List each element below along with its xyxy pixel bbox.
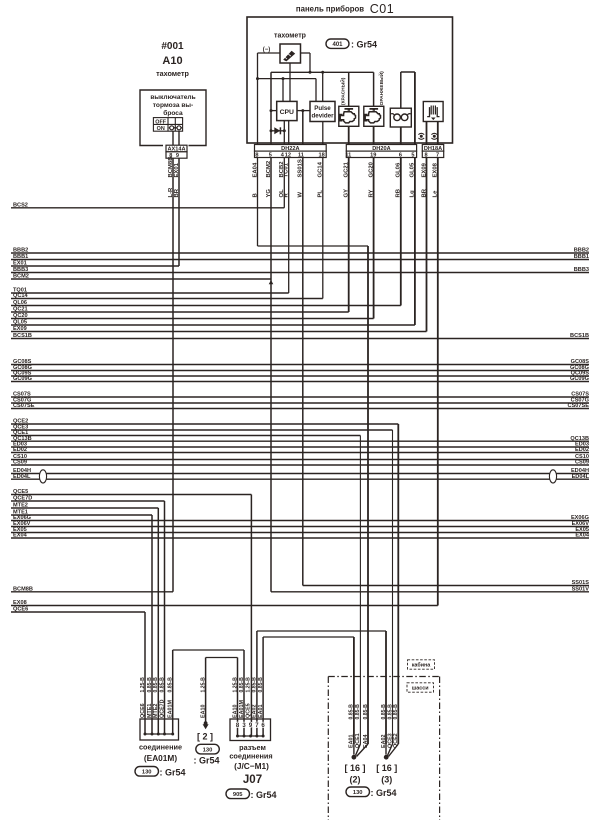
junction bus2 gauge [256, 77, 259, 80]
wire joint J07 bus [238, 735, 264, 737]
svg-text:C01: C01 [370, 2, 394, 16]
svg-text:тахометр: тахометр [156, 69, 189, 78]
label шасси [407, 683, 434, 692]
svg-text:1.25-B: 1.25-B [245, 677, 251, 693]
svg-text:GC20: GC20 [368, 161, 374, 177]
wire QCE1 vertical to joint 16-2 [359, 436, 361, 745]
wire QCE6 vertical to joint EA01M [144, 612, 146, 734]
svg-text:A10: A10 [162, 55, 182, 67]
wire net ED02 [11, 452, 589, 454]
svg-text:11: 11 [298, 152, 304, 158]
wire joint EA01M bus [145, 733, 173, 735]
svg-text:EA04: EA04 [363, 735, 369, 749]
arrow junction BCM2 [269, 280, 274, 284]
svg-text:QC14: QC14 [13, 293, 29, 299]
wire CPU left [271, 110, 277, 112]
svg-text:devider: devider [311, 113, 334, 120]
wire net BBB1 [11, 259, 589, 261]
wire BCM8B vertical from AX14A pin8 [172, 156, 174, 592]
wire net EX09 [11, 331, 427, 333]
wire SS01S vertical DH22A pin11 [302, 111, 304, 586]
svg-text:130: 130 [142, 770, 152, 776]
switch contact bridge [169, 127, 182, 129]
wire EA01 vertical to joint 16-2 [353, 637, 355, 744]
wire BCM2/SS01V vertical DH22A pin5 [270, 72, 272, 592]
wire net BCS1B [11, 338, 589, 340]
wire gauge left down [257, 53, 259, 79]
svg-text:401: 401 [332, 42, 343, 48]
svg-text:18: 18 [318, 152, 324, 158]
wire net QCE5 [11, 494, 251, 496]
wire coil jumper top [401, 71, 415, 73]
svg-text:J07: J07 [243, 774, 262, 786]
svg-text:(2): (2) [350, 775, 361, 785]
icon check engine red [345, 108, 354, 111]
wire gauge right [301, 52, 311, 54]
junction EA01M [171, 733, 174, 736]
svg-text:GY: GY [344, 189, 350, 198]
svg-text:CS07SE: CS07SE [13, 403, 35, 409]
wire GC20 vertical DH20A pin19 to QC20 [373, 126, 375, 318]
svg-text:130: 130 [353, 790, 363, 796]
svg-text:BBB1: BBB1 [13, 254, 28, 260]
wire bus2 to CPU top [282, 79, 284, 102]
wire bus1 [271, 71, 374, 73]
junction J07 [249, 735, 252, 738]
wire net SS01V [271, 591, 589, 593]
wire MTE2 vertical to joint EA01M [157, 508, 159, 734]
exhaust brake switch box [140, 90, 206, 146]
svg-text:EA02: EA02 [381, 735, 387, 749]
svg-text:0.85-B: 0.85-B [355, 704, 361, 720]
cab chassis boundary horizontal [328, 676, 439, 678]
svg-text:броса: броса [163, 109, 183, 117]
wire net QL05 [11, 324, 415, 326]
wire EA02 vertical to J07 pin7 [256, 631, 258, 736]
svg-text:BR: BR [174, 188, 180, 197]
wire net BCS2 [11, 207, 284, 209]
wire net QL06 [11, 305, 401, 307]
label кабина [408, 660, 435, 669]
svg-text:MTE1: MTE1 [147, 704, 153, 718]
wire QCE7D vertical to joint EA01M [164, 501, 166, 734]
wire net EX04 [11, 537, 589, 539]
svg-text:8: 8 [255, 152, 258, 158]
svg-text:EX08: EX08 [433, 162, 439, 177]
instrument panel box C01 [247, 17, 453, 143]
wire net ED04L [11, 478, 589, 480]
svg-text:[ 16 ]: [ 16 ] [344, 763, 365, 773]
icon coil loops [394, 114, 401, 121]
svg-text:[ 16 ]: [ 16 ] [376, 763, 397, 773]
wire EA10 vertical to destination 2 arrow [205, 658, 207, 724]
oval 401 Gr54 [326, 39, 349, 48]
svg-text:(J/C−M1): (J/C−M1) [234, 761, 269, 771]
wire net BCM8B [11, 591, 173, 593]
svg-text:EA01: EA01 [258, 705, 264, 719]
svg-text:EX01: EX01 [174, 162, 180, 177]
svg-text:0.85-B: 0.85-B [239, 677, 245, 693]
icon exhaust brake [427, 107, 439, 117]
svg-text:панель приборов: панель приборов [296, 5, 364, 14]
icon check engine orange [370, 108, 379, 111]
svg-text:0.85-B: 0.85-B [147, 677, 153, 693]
wire net QCE1 [11, 435, 360, 437]
wire net CS10 [11, 459, 589, 461]
wire net QC09S [11, 375, 589, 377]
wire net ED03 [11, 446, 589, 448]
wire net QCE7D [11, 500, 165, 502]
svg-text:RY: RY [368, 189, 374, 197]
wire net CS07SE [11, 408, 589, 410]
wire TC01 vertical CPU to DH22A pin12 to TQ01 [288, 121, 290, 293]
wire QCE2 vertical to joint 16-3 [397, 424, 399, 744]
glow plug coil box [390, 108, 411, 127]
wire EA01 horizontal link y637 [263, 636, 354, 638]
junction diode left [270, 129, 273, 132]
svg-text:: Gr54: : Gr54 [251, 790, 277, 800]
wire net GC09G [11, 381, 589, 383]
svg-text:тормоза вы-: тормоза вы- [153, 102, 193, 109]
svg-text:QCE2: QCE2 [393, 733, 399, 748]
wire BCB2 vertical CPU to DH22A pin4 to BCS2 [283, 121, 285, 208]
wire net QCE2 [11, 423, 398, 425]
svg-text:GL06: GL06 [396, 162, 402, 177]
svg-text:EX04: EX04 [13, 533, 28, 539]
joint connector EA01M [140, 719, 179, 740]
wire net TQ01 [11, 292, 289, 294]
svg-text:RB: RB [396, 189, 402, 198]
wire EX01 vertical from AX14A pin9 [178, 156, 180, 266]
svg-text:6: 6 [399, 152, 402, 158]
svg-text:BCS2: BCS2 [13, 203, 28, 209]
wire EA10 horizontal link y657 [206, 657, 238, 659]
wire QCE5 vertical to J07 pin9 [250, 495, 252, 737]
svg-text:CS09: CS09 [575, 460, 589, 466]
svg-text:BCM2: BCM2 [13, 274, 29, 280]
wire net QCE3 [11, 429, 393, 431]
svg-text:YG: YG [266, 189, 272, 198]
svg-text:QL05: QL05 [13, 320, 27, 326]
oval 130 destination 2 [196, 744, 220, 754]
wire GL06 vertical coil to DH20A pin6 to QL06 [400, 127, 402, 306]
wire net MTE1 [11, 514, 152, 516]
svg-text:EX09: EX09 [421, 162, 427, 177]
svg-text:0.85-B: 0.85-B [363, 704, 369, 720]
svg-text:(−): (−) [263, 47, 271, 53]
gauge needle icon [283, 51, 295, 62]
svg-text:шасси: шасси [412, 686, 429, 692]
switch contact 2 [177, 126, 181, 130]
wire GC14 vertical pulse divider to DH22A pin18 to QC14 [322, 122, 324, 299]
svg-text:GC09G: GC09G [13, 376, 32, 382]
connector DH22A [255, 145, 327, 152]
wire gauge left [258, 52, 281, 54]
junction SS01S tap [301, 109, 304, 112]
svg-text:ON: ON [157, 126, 165, 132]
svg-text:: Gr54: : Gr54 [194, 756, 220, 766]
junction bus2 cpu [282, 77, 285, 80]
wire coil top up [400, 72, 402, 108]
wire net CS07G [11, 402, 589, 404]
svg-text:MTE2: MTE2 [13, 503, 28, 509]
wire MTE1 vertical to joint EA01M [151, 515, 153, 734]
svg-text:[ 2 ]: [ 2 ] [197, 732, 213, 742]
arrow destination 2 [204, 721, 208, 725]
svg-text:TC01: TC01 [284, 162, 290, 177]
cab chassis boundary vertical left [327, 677, 329, 820]
svg-text:EA01: EA01 [349, 735, 355, 749]
connector DH20A [346, 145, 416, 152]
twisted pair marker right [549, 470, 556, 483]
svg-text:1.25-B: 1.25-B [200, 677, 206, 693]
wire net EX08 [11, 605, 438, 607]
wire net EX01 [11, 265, 179, 267]
svg-text:12: 12 [285, 152, 291, 158]
svg-text:8: 8 [424, 152, 427, 158]
svg-text:QCE5: QCE5 [13, 489, 28, 495]
wire EX08 vertical DH18A pin7 to EX08 line [437, 121, 439, 605]
svg-text:5: 5 [269, 152, 272, 158]
svg-text:BR: BR [421, 188, 427, 197]
svg-text:ED04L: ED04L [13, 474, 31, 480]
exhaust brake indicator box [423, 102, 443, 122]
svg-text:QCE7D: QCE7D [159, 699, 165, 718]
svg-text:#001: #001 [161, 41, 184, 52]
svg-text:130: 130 [203, 747, 213, 753]
svg-text:905: 905 [233, 792, 243, 798]
junction J07 [236, 735, 239, 738]
svg-text:QC20: QC20 [13, 313, 28, 319]
wire EA04 vertical from DH22A pin8 [257, 79, 259, 246]
switch contact 1 [170, 126, 174, 130]
lamp red check-engine box [339, 106, 359, 126]
svg-text:0.85-B: 0.85-B [159, 677, 165, 693]
svg-text:BCS1B: BCS1B [570, 333, 589, 339]
svg-text:: Gr54: : Gr54 [371, 788, 397, 798]
svg-text:SS01V: SS01V [572, 587, 590, 593]
wire net EX05 [11, 532, 589, 534]
wire EA01M horizontal link y650 [173, 649, 244, 651]
svg-text:5: 5 [411, 152, 414, 158]
twisted pair marker left [39, 470, 46, 483]
wire net BBB2 [11, 252, 589, 254]
svg-text:7: 7 [436, 152, 439, 158]
wire gauge right down [309, 53, 311, 72]
wire net CS07S [11, 396, 589, 398]
svg-text:EA04: EA04 [252, 162, 258, 177]
svg-text:R: R [284, 193, 290, 198]
svg-text:тахометр: тахометр [274, 33, 306, 40]
svg-text:(3): (3) [381, 775, 392, 785]
junction EA01M [144, 733, 147, 736]
svg-text:EX01: EX01 [13, 261, 27, 267]
svg-text:19: 19 [370, 152, 376, 158]
svg-text:(ЕА01М): (ЕА01М) [144, 753, 177, 763]
wire net QC20 [11, 318, 374, 320]
junction EA01M [151, 733, 154, 736]
svg-text:0.85-B: 0.85-B [393, 704, 399, 720]
wire net QCE6 [11, 611, 145, 613]
svg-text:BBB2: BBB2 [574, 248, 589, 254]
cab chassis boundary vertical right [439, 677, 441, 820]
joint dot 16-3 [384, 755, 389, 760]
svg-text:ED02: ED02 [575, 447, 589, 453]
svg-text:EA01M: EA01M [239, 700, 245, 718]
wire net GC08G [11, 370, 589, 372]
wire bus2 into pulse divider [315, 79, 317, 102]
oval 130 Gr54 16 [346, 787, 370, 797]
svg-text:0.85-B: 0.85-B [168, 677, 174, 693]
svg-text:BBB2: BBB2 [13, 248, 28, 254]
junction J07 [262, 735, 265, 738]
svg-text:EX04: EX04 [575, 533, 590, 539]
svg-text:соединения: соединения [229, 752, 272, 761]
svg-text:CPU: CPU [280, 109, 294, 116]
wire switch to AX14A pin8 [172, 131, 174, 146]
wire net BBB3 [11, 272, 589, 274]
svg-text:PL: PL [318, 190, 324, 198]
junction EA01M [157, 733, 160, 736]
svg-text:EA10: EA10 [232, 705, 238, 719]
svg-text:BBB3: BBB3 [13, 267, 28, 273]
wire EA01 vertical to J07 pin6 [262, 637, 264, 736]
wire net ED04H [11, 473, 589, 475]
svg-text:MTE2: MTE2 [153, 704, 159, 718]
wire bus2 [258, 78, 317, 80]
wire gauge centre to CPU [289, 63, 291, 101]
wire QCE3 vertical to joint 16-3 [392, 430, 394, 744]
switch contact table [153, 118, 182, 132]
svg-text:9: 9 [176, 153, 179, 159]
wire EA01M vertical to J07 pin3 [243, 650, 245, 736]
wire net EX06G [11, 520, 589, 522]
oval 130 Gr54 EA01M [135, 767, 159, 777]
wire EA10 vertical to J07 pin8 [237, 658, 239, 737]
svg-text:QL06: QL06 [13, 300, 27, 306]
svg-text:0.85-B: 0.85-B [153, 677, 159, 693]
svg-text:QCE6: QCE6 [140, 703, 146, 718]
connector J07 [230, 719, 271, 741]
svg-text:выключатель: выключатель [150, 94, 195, 101]
wire EA01M vertical joint to J07 link [172, 650, 174, 734]
svg-text:BCM8B: BCM8B [13, 587, 33, 593]
svg-text:QCE6: QCE6 [13, 607, 28, 613]
svg-text:кабина: кабина [412, 662, 432, 669]
svg-text:11: 11 [345, 152, 351, 158]
wire net QC21 [11, 311, 349, 313]
wire EX09 vertical DH18A pin8 to EX09 line [426, 121, 428, 331]
wire bus1 to pulse divider top [322, 72, 324, 101]
svg-text:Lg: Lg [410, 190, 416, 198]
svg-text:0.85-B: 0.85-B [258, 677, 264, 693]
svg-text:BBB1: BBB1 [574, 254, 589, 260]
svg-text:1.25-B: 1.25-B [232, 677, 238, 693]
junction bus1 pulse divider [321, 71, 324, 74]
svg-text:GC14: GC14 [318, 161, 324, 177]
junction EA01M [163, 733, 166, 736]
splice symbol right [431, 133, 437, 139]
svg-text:0.85-B: 0.85-B [349, 704, 355, 720]
connector AX14A [166, 145, 187, 152]
wire GC21 vertical DH20A pin11 to QC21 [348, 126, 350, 312]
svg-text:SS01S: SS01S [572, 580, 590, 586]
junction bus1 gauge right [309, 71, 312, 74]
wire bends into joint 16-2 [354, 744, 368, 757]
svg-text:ED02: ED02 [13, 447, 27, 453]
wire CPU to pulse divider [297, 110, 310, 112]
oval 905 Gr54 J07 [226, 789, 250, 799]
wire lamp2 top [373, 72, 375, 106]
op-amp CPU box [277, 101, 297, 120]
joint dot 16-2 [352, 755, 357, 760]
svg-text:BBB3: BBB3 [574, 267, 589, 273]
svg-text:соединение: соединение [139, 743, 182, 752]
svg-text:BCS1B: BCS1B [13, 333, 32, 339]
wire net QC14 [11, 298, 323, 300]
svg-text:CS09: CS09 [13, 460, 27, 466]
wire net BCM2 [11, 278, 271, 280]
wire net QC13B [11, 440, 589, 442]
svg-text:: Gr54: : Gr54 [351, 39, 377, 49]
svg-text:ED04L: ED04L [572, 474, 590, 480]
connector DH18A [422, 145, 443, 152]
svg-text:GC21: GC21 [344, 161, 350, 177]
svg-text:GL05: GL05 [410, 162, 416, 177]
junction J07 [255, 735, 258, 738]
splice symbol left [418, 133, 424, 139]
wire net MTE2 [11, 507, 158, 509]
wire bends into joint 16-3 [386, 744, 398, 757]
svg-text:QCE1: QCE1 [355, 733, 361, 748]
wire EA04 horizontal y246 [258, 245, 369, 247]
diode D1 [274, 127, 280, 134]
wire switch to AX14A pin9 [178, 131, 180, 146]
wire GL05 vertical to DH20A pin5 to QL05 [414, 72, 416, 325]
svg-text:Le: Le [433, 190, 439, 198]
junction J07 [243, 735, 246, 738]
svg-text:OFF: OFF [155, 119, 166, 125]
svg-text:Pulse: Pulse [314, 105, 331, 112]
wire EA02 horizontal link y631 [257, 630, 386, 632]
wire net GC08S [11, 364, 589, 366]
wire net CS09 [11, 464, 589, 466]
tachometer gauge [280, 44, 301, 63]
pulse divider box [310, 101, 335, 121]
svg-text:SS01S: SS01S [298, 159, 304, 177]
svg-text:0.85-B: 0.85-B [252, 677, 258, 693]
lamp orange check-engine box [364, 106, 384, 126]
wire EA04 long vertical to joint 16-2 [367, 246, 369, 744]
svg-text:1.25-B: 1.25-B [140, 677, 146, 693]
wire net SS01S [303, 585, 589, 587]
svg-text:EA10: EA10 [200, 705, 206, 719]
junction diode right [283, 129, 286, 132]
wire lamp1 top [348, 72, 350, 106]
svg-text:W: W [298, 192, 304, 198]
wire net EX06V [11, 526, 589, 528]
svg-text:EA02: EA02 [252, 705, 258, 719]
svg-text:GC09G: GC09G [570, 376, 589, 382]
svg-text:0.85-B: 0.85-B [381, 704, 387, 720]
wire diode line [271, 130, 284, 132]
svg-text:EX08: EX08 [13, 600, 27, 606]
svg-text:BCM2: BCM2 [266, 160, 272, 177]
wire EA02 vertical to joint 16-3 [385, 631, 387, 744]
svg-text:CS07SE: CS07SE [568, 403, 590, 409]
svg-text:QC21: QC21 [13, 307, 28, 313]
svg-text:: Gr54: : Gr54 [160, 768, 186, 778]
